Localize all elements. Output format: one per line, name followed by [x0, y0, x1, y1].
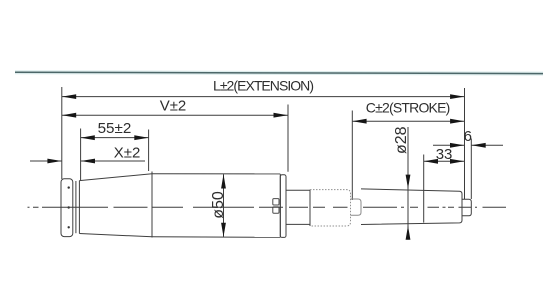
svg-text:L±2(EXTENSION): L±2(EXTENSION) — [213, 78, 314, 94]
svg-text:X±2: X±2 — [114, 144, 141, 161]
svg-text:ø28: ø28 — [393, 126, 410, 154]
svg-text:55±2: 55±2 — [98, 120, 132, 137]
svg-text:C±2(STROKE): C±2(STROKE) — [366, 100, 451, 116]
svg-text:ø50: ø50 — [210, 191, 227, 219]
svg-text:V±2: V±2 — [160, 98, 187, 115]
svg-text:6: 6 — [464, 128, 472, 145]
svg-text:33: 33 — [436, 146, 453, 163]
